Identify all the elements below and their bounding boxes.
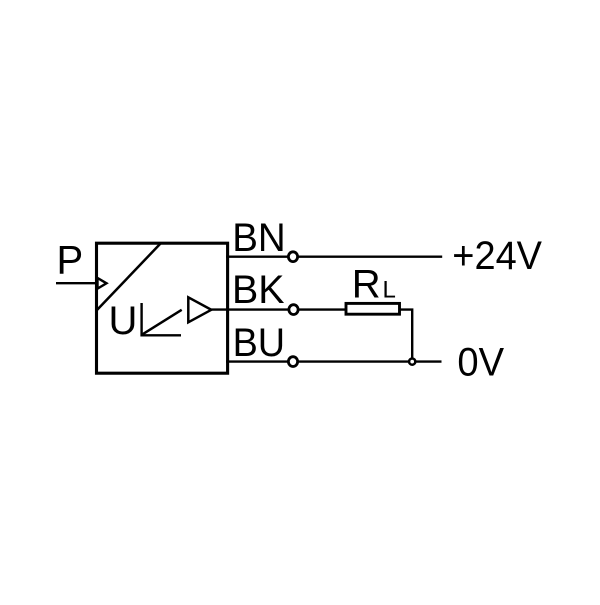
op-amp triangle xyxy=(188,297,211,322)
connector diamond BK xyxy=(289,305,298,315)
svg-text:P: P xyxy=(57,239,84,283)
svg-text:0V: 0V xyxy=(457,340,504,384)
svg-text:R: R xyxy=(352,262,381,306)
graph curve diagonal xyxy=(143,310,182,335)
resistor RL body xyxy=(346,303,400,314)
svg-text:BK: BK xyxy=(232,268,285,312)
svg-text:BU: BU xyxy=(233,321,286,365)
diagonal transducer stroke xyxy=(97,244,161,311)
sensor box U1 xyxy=(97,243,228,373)
graph axis xyxy=(142,303,181,335)
connector diamond BN xyxy=(288,252,297,262)
wire P input xyxy=(56,282,97,284)
svg-text:U: U xyxy=(109,299,138,343)
svg-text:+24V: +24V xyxy=(452,234,542,278)
junction node circle xyxy=(409,359,415,365)
svg-text:L: L xyxy=(383,276,396,303)
wire BK xyxy=(211,308,346,310)
wire BN xyxy=(226,256,442,258)
connector diamond BU xyxy=(288,357,297,367)
arrowhead P input xyxy=(98,278,107,289)
wire RL to 0V xyxy=(400,310,413,362)
svg-text:BN: BN xyxy=(232,216,286,260)
wire BU xyxy=(226,360,442,362)
